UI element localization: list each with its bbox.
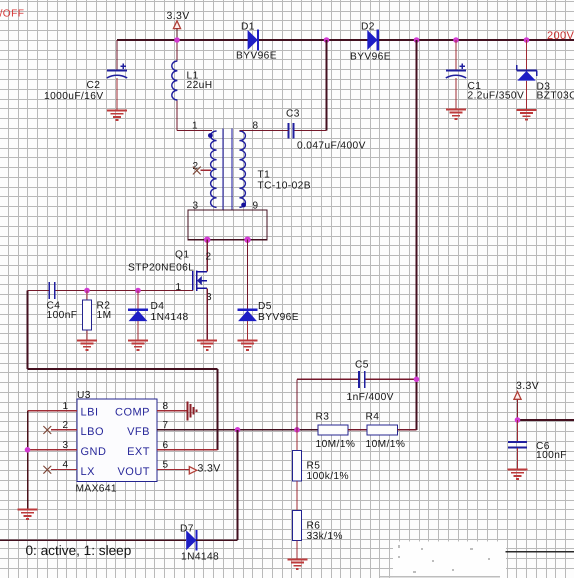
capacitor C3 bbox=[288, 123, 293, 138]
wire pin6 EXT bbox=[157, 449, 218, 451]
wire C5 left bbox=[297, 379, 359, 430]
label C1 bbox=[468, 81, 482, 92]
svg-text:C3: C3 bbox=[286, 109, 300, 120]
label BYV96E D1 bbox=[236, 51, 277, 62]
svg-text:1: 1 bbox=[192, 121, 198, 132]
transformer T1 right winding bbox=[239, 131, 245, 207]
capacitor C6 bbox=[508, 442, 527, 448]
pin 9 label bbox=[253, 200, 259, 211]
svg-text:200V: 200V bbox=[547, 30, 574, 42]
transformer phase dot pin1 bbox=[208, 133, 213, 138]
label STP20NE06L bbox=[128, 263, 194, 274]
node junction C5/R4drop bbox=[414, 377, 420, 383]
pin 2 label bbox=[193, 161, 199, 172]
label 3.3V VOUT bbox=[198, 463, 221, 475]
node junction D4/gate bbox=[135, 288, 141, 294]
resistor R3 bbox=[318, 425, 348, 435]
label R6 bbox=[307, 520, 321, 531]
wire pin8 bbox=[240, 130, 242, 132]
label D4 bbox=[151, 301, 165, 312]
svg-text:R5: R5 bbox=[307, 461, 321, 472]
svg-text:1N4148: 1N4148 bbox=[181, 552, 219, 563]
label 200V bbox=[547, 30, 574, 42]
pin 1 label Q1 bbox=[176, 282, 182, 293]
label 10M/1% R4 bbox=[366, 439, 406, 450]
wire D5 stems bbox=[247, 240, 249, 341]
label 100nF bbox=[47, 310, 78, 321]
power 3.3V arrow top bbox=[173, 21, 180, 40]
svg-text:BZT03C200: BZT03C200 bbox=[537, 91, 574, 102]
svg-text:4: 4 bbox=[63, 460, 69, 471]
label BYV96E D2 bbox=[350, 52, 391, 63]
wire L1 stems bbox=[177, 40, 212, 131]
label BYV96E D5 bbox=[258, 312, 299, 323]
wire main 3.3V top rail bbox=[117, 39, 574, 41]
wire pin4 LX bbox=[51, 469, 77, 471]
svg-text:BYV96E: BYV96E bbox=[236, 51, 277, 62]
svg-text:3: 3 bbox=[63, 440, 69, 451]
wire pin1 LBI bbox=[28, 410, 78, 412]
wire D7 cathode bbox=[196, 539, 238, 541]
pin number 4 bbox=[63, 460, 69, 471]
node junction rail/C3 drop bbox=[324, 37, 330, 43]
svg-text:0.047uF/400V: 0.047uF/400V bbox=[297, 141, 366, 152]
resistor R6 bbox=[292, 510, 301, 540]
watermark patch bbox=[380, 542, 574, 578]
label TC-10-02B bbox=[258, 181, 311, 192]
svg-text:VFB: VFB bbox=[127, 426, 150, 438]
node junction box/Q1 drain bbox=[204, 237, 210, 243]
label 1nF/400V bbox=[347, 392, 394, 403]
svg-text:R4: R4 bbox=[366, 412, 380, 423]
svg-text:2.2uF/350V: 2.2uF/350V bbox=[468, 91, 525, 102]
wire 3.3V right rail bbox=[518, 419, 574, 421]
wire pin2 LBO bbox=[51, 429, 77, 431]
diode D4 bbox=[128, 310, 148, 321]
wire D7 vertical bbox=[237, 430, 239, 540]
label LBI bbox=[81, 406, 99, 418]
ground C1 bbox=[446, 110, 466, 119]
ground U3 left bbox=[18, 510, 38, 519]
label 1M bbox=[97, 310, 112, 321]
transformer T1 core bbox=[223, 129, 232, 210]
ground R2 bbox=[77, 341, 97, 350]
capacitor C4 bbox=[49, 282, 55, 299]
transformer T1 left winding bbox=[211, 131, 217, 207]
wire C3 right bbox=[294, 130, 327, 132]
label VFB bbox=[127, 426, 150, 438]
node junction rail/C1 bbox=[453, 37, 459, 43]
label 3.3V right bbox=[516, 380, 539, 392]
label D7 bbox=[180, 524, 194, 535]
ground D4 bbox=[128, 341, 148, 350]
svg-text:LX: LX bbox=[81, 466, 96, 478]
label ON/OFF bbox=[0, 9, 24, 20]
label U3 bbox=[77, 390, 91, 401]
label VOUT bbox=[117, 466, 150, 478]
ground D3 bbox=[517, 110, 537, 119]
label LBO bbox=[81, 426, 105, 438]
svg-text:LBI: LBI bbox=[81, 406, 99, 418]
svg-text:1N4148: 1N4148 bbox=[151, 312, 189, 323]
pin 3 label Q1 bbox=[206, 292, 212, 303]
wire C2 branch vertical bbox=[116, 40, 118, 111]
wire U3 left rail bbox=[27, 411, 29, 510]
svg-text:100k/1%: 100k/1% bbox=[307, 471, 349, 482]
wire D3 stems bbox=[526, 40, 528, 110]
label COMP bbox=[115, 406, 150, 418]
svg-text:10M/1%: 10M/1% bbox=[366, 439, 406, 450]
pin number 8 bbox=[163, 401, 169, 412]
wire C3 left / pin8 bbox=[240, 130, 289, 132]
label BZT03C bbox=[537, 91, 574, 102]
svg-text:ON/OFF: ON/OFF bbox=[0, 9, 24, 20]
label 1N4148 D7 bbox=[181, 552, 219, 563]
label C6 bbox=[536, 441, 550, 452]
transformer phase dot pin9 bbox=[241, 203, 246, 208]
node junction pin3/rail bbox=[25, 447, 31, 453]
capacitor C5 bbox=[359, 371, 365, 388]
wire pin5 VOUT bbox=[157, 469, 190, 471]
ground C6 bbox=[508, 470, 528, 479]
svg-text:8: 8 bbox=[253, 121, 259, 132]
label C4 bbox=[47, 301, 61, 312]
transistor Q1 bbox=[193, 270, 207, 291]
svg-text:MAX641: MAX641 bbox=[76, 484, 117, 495]
wire gate row bbox=[55, 290, 192, 292]
svg-text:1M: 1M bbox=[97, 310, 112, 321]
svg-text:U3: U3 bbox=[77, 390, 91, 401]
svg-text:COMP: COMP bbox=[115, 406, 150, 418]
node junction R2/gate bbox=[84, 288, 90, 294]
wire R5 top stem bbox=[296, 430, 298, 451]
svg-text:33k/1%: 33k/1% bbox=[307, 531, 343, 542]
label 1N4148 D4 bbox=[151, 312, 189, 323]
no-connect X pin2 LBO bbox=[44, 426, 51, 433]
svg-text:100nF: 100nF bbox=[47, 310, 78, 321]
wire C6 bottom stem bbox=[517, 448, 519, 469]
diode D1 bbox=[248, 30, 258, 51]
wire C5 right bbox=[366, 378, 417, 380]
svg-text:BYV96E: BYV96E bbox=[350, 52, 391, 63]
ground R6 bbox=[287, 560, 307, 569]
wire R5-R6 stem bbox=[296, 481, 298, 510]
node junction rail/R4 drop bbox=[414, 37, 420, 43]
resistor R5 bbox=[292, 451, 301, 482]
label D1 bbox=[241, 22, 255, 33]
svg-text:GND: GND bbox=[81, 446, 107, 458]
wire C4 left loop bbox=[28, 291, 50, 370]
pin number 7 bbox=[163, 420, 169, 431]
node junction 3.3V rail/L1 bbox=[174, 37, 180, 43]
wire C1 stems bbox=[455, 40, 457, 110]
label 3.3V top bbox=[167, 10, 190, 22]
label 33k/1% bbox=[307, 531, 343, 542]
resistor R2 bbox=[82, 300, 91, 330]
svg-text:0: active, 1: sleep: 0: active, 1: sleep bbox=[26, 543, 132, 558]
svg-text:3.3V: 3.3V bbox=[167, 10, 190, 22]
no-connect X pin4 LX bbox=[44, 466, 51, 473]
wire R3-R4 bbox=[348, 429, 367, 431]
label D5 bbox=[258, 301, 272, 312]
ground C2 bbox=[107, 111, 127, 120]
svg-text:BYV96E: BYV96E bbox=[258, 312, 299, 323]
wire C6 top stem bbox=[517, 420, 519, 441]
label R4 bbox=[366, 412, 380, 423]
svg-text:R3: R3 bbox=[316, 412, 330, 423]
ic U3 box bbox=[77, 399, 157, 482]
svg-text:D4: D4 bbox=[151, 301, 165, 312]
wire D7 anode row bbox=[0, 539, 186, 541]
label L1 bbox=[187, 71, 199, 82]
label 0.047uF/400V bbox=[297, 141, 366, 152]
wire rail to R4 vertical bbox=[416, 40, 418, 430]
capacitor C1 bbox=[446, 64, 466, 78]
svg-text:D1: D1 bbox=[241, 22, 255, 33]
node junction rail/D3 bbox=[524, 37, 530, 43]
svg-text:3.3V: 3.3V bbox=[516, 380, 539, 392]
pin number 5 bbox=[163, 460, 169, 471]
label D2 bbox=[361, 22, 375, 33]
label R3 bbox=[316, 412, 330, 423]
pin number 2 bbox=[63, 420, 69, 431]
svg-text:T1: T1 bbox=[258, 170, 271, 181]
ground COMP rotated bbox=[187, 401, 196, 420]
wire EXT loop horizontal bbox=[28, 368, 218, 370]
wire R4 right bbox=[398, 429, 417, 431]
wire D4 stems bbox=[137, 291, 139, 341]
power 3.3V arrow right bbox=[514, 392, 521, 421]
pin number 1 bbox=[63, 401, 69, 412]
ground Q1 bbox=[197, 341, 217, 350]
label MAX641 bbox=[76, 484, 117, 495]
svg-text:5: 5 bbox=[163, 460, 169, 471]
svg-text:22uH: 22uH bbox=[187, 80, 213, 91]
svg-text:8: 8 bbox=[163, 401, 169, 412]
svg-text:7: 7 bbox=[163, 420, 169, 431]
pin 3 label bbox=[193, 200, 199, 211]
resistor R4 bbox=[367, 425, 398, 435]
label C3 bbox=[286, 109, 300, 120]
wire pin3 GND bbox=[28, 449, 78, 451]
label 100nF C6 bbox=[536, 450, 567, 461]
wire EXT loop vertical bbox=[217, 369, 219, 450]
svg-text:C5: C5 bbox=[355, 360, 369, 371]
label GND bbox=[81, 446, 107, 458]
svg-text:Q1: Q1 bbox=[175, 250, 189, 261]
svg-text:2: 2 bbox=[63, 420, 69, 431]
ground D5 bbox=[238, 341, 258, 350]
label D3 bbox=[537, 82, 551, 93]
wire transformer bottom loop bbox=[188, 210, 267, 240]
wire R2 stems bbox=[86, 291, 88, 341]
svg-text:D5: D5 bbox=[258, 301, 272, 312]
label 2.2uF/350V bbox=[468, 91, 525, 102]
node junction VFB/D7 bbox=[235, 427, 241, 433]
svg-text:STP20NE06L: STP20NE06L bbox=[128, 263, 194, 274]
svg-text:D2: D2 bbox=[361, 22, 375, 33]
label sleep note bbox=[26, 543, 132, 558]
wire pin2 tap bbox=[201, 169, 212, 171]
diode zener D3 bbox=[517, 65, 537, 81]
label LX bbox=[81, 466, 96, 478]
svg-text:C2: C2 bbox=[87, 80, 101, 91]
label 100k/1% bbox=[307, 471, 349, 482]
diode D2 bbox=[367, 30, 377, 51]
svg-text:2: 2 bbox=[206, 252, 212, 263]
node junction VFB/C5 bbox=[294, 427, 300, 433]
wire pin7 VFB bbox=[157, 429, 318, 431]
node junction 3.3V/C6 bbox=[515, 417, 521, 423]
svg-text:100nF: 100nF bbox=[536, 450, 567, 461]
label R5 bbox=[307, 461, 321, 472]
wire pin8 COMP bbox=[157, 410, 187, 412]
inductor L1 bbox=[172, 61, 178, 100]
svg-text:1000uF/16V: 1000uF/16V bbox=[44, 91, 104, 102]
capacitor C2 bbox=[107, 64, 127, 78]
label 22uH bbox=[187, 80, 213, 91]
wire Q1 drain vertical bbox=[206, 240, 208, 272]
svg-text:1nF/400V: 1nF/400V bbox=[347, 392, 394, 403]
label 1000uF/16V bbox=[44, 91, 104, 102]
svg-text:D7: D7 bbox=[180, 524, 194, 535]
label R2 bbox=[97, 301, 111, 312]
svg-text:R6: R6 bbox=[307, 520, 321, 531]
label T1 bbox=[258, 170, 271, 181]
no-connect X pin2 bbox=[193, 167, 200, 174]
diode D7 bbox=[186, 530, 196, 551]
svg-text:3.3V: 3.3V bbox=[198, 463, 221, 475]
label Q1 bbox=[175, 250, 189, 261]
pin number 3 bbox=[63, 440, 69, 451]
pin 8 label bbox=[253, 121, 259, 132]
pin 1 label bbox=[192, 121, 198, 132]
svg-text:1: 1 bbox=[176, 282, 182, 293]
label EXT bbox=[127, 446, 150, 458]
svg-text:10M/1%: 10M/1% bbox=[316, 439, 356, 450]
svg-text:6: 6 bbox=[163, 440, 169, 451]
svg-text:LBO: LBO bbox=[81, 426, 105, 438]
wire Q1 source vertical bbox=[206, 288, 208, 340]
pin number 6 bbox=[163, 440, 169, 451]
label C2 bbox=[87, 80, 101, 91]
node junction box/D5 bbox=[244, 237, 250, 243]
label C5 bbox=[355, 360, 369, 371]
power arrow VOUT 3.3V bbox=[189, 467, 197, 474]
svg-text:1: 1 bbox=[63, 401, 69, 412]
diode D5 bbox=[238, 310, 258, 321]
pin 2 label Q1 bbox=[206, 252, 212, 263]
svg-text:EXT: EXT bbox=[127, 446, 150, 458]
svg-text:VOUT: VOUT bbox=[117, 466, 150, 478]
label 10M/1% R3 bbox=[316, 439, 356, 450]
svg-text:TC-10-02B: TC-10-02B bbox=[258, 181, 311, 192]
wire rail to C3 vertical bbox=[326, 40, 328, 131]
wire R6 bottom stem bbox=[296, 541, 298, 560]
